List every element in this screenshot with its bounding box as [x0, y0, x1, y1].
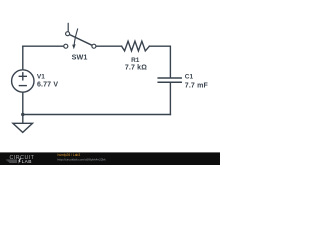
wire ground stub: [22, 115, 24, 124]
capacitor C1 bottom plate: [158, 81, 181, 83]
svg-text:7.7 kΩ: 7.7 kΩ: [125, 65, 147, 72]
switch SW1 arrow: [74, 28, 78, 44]
wire left vertical upper: [22, 46, 24, 70]
V1 minus sign: [19, 85, 26, 87]
wire switch to resistor: [96, 45, 122, 47]
svg-text:C1: C1: [185, 74, 194, 81]
switch SW1 terminal circle left: [64, 44, 68, 48]
svg-text:http://circuitlab.com/c6f8ybk4: http://circuitlab.com/c6f8ybk4e22kk: [58, 158, 107, 162]
capacitor C1 top plate: [158, 77, 181, 79]
svg-text:R1: R1: [131, 57, 140, 64]
wire top rail left: [23, 45, 64, 47]
watermark bar: [0, 152, 220, 165]
switch SW1 blade: [69, 35, 92, 46]
switch SW1 terminal circle right: [92, 44, 96, 48]
svg-text:7.7 mF: 7.7 mF: [185, 82, 209, 89]
svg-text:LAB: LAB: [22, 159, 32, 165]
wire left vertical lower: [22, 92, 24, 114]
watermark logo bolt: [18, 158, 21, 163]
switch SW1 actuator line: [67, 23, 69, 32]
switch SW1 pivot circle top: [66, 32, 70, 36]
svg-text:V1: V1: [37, 74, 45, 81]
svg-text:SW1: SW1: [72, 52, 88, 61]
svg-text:humlp26 / Lab3: humlp26 / Lab3: [58, 153, 81, 157]
ground: [13, 123, 33, 132]
wire resistor to corner and down: [149, 46, 170, 77]
watermark logo stripes: [6, 160, 17, 162]
node junction bottom-left: [21, 113, 24, 116]
V1 plus sign: [19, 73, 26, 80]
voltage source V1: [12, 70, 34, 92]
wire capacitor down: [169, 83, 171, 114]
svg-text:6.77 V: 6.77 V: [37, 82, 58, 89]
resistor R1: [122, 41, 150, 51]
wire bottom rail: [23, 114, 171, 116]
